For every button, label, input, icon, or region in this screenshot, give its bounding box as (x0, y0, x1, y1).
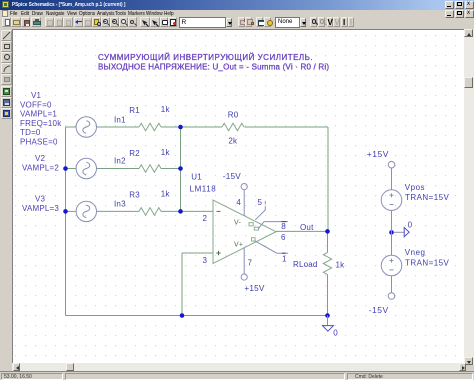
svg-text:ВЫХОДНОЕ НАПРЯЖЕНИЕ: U_Out = -: ВЫХОДНОЕ НАПРЯЖЕНИЕ: U_Out = - Summa (Vi… (98, 63, 329, 72)
V1 attribute labels (20, 91, 62, 146)
pin 1 stub and number (255, 241, 288, 264)
resistor R0 (222, 110, 244, 145)
voltage source V3 (76, 201, 96, 221)
svg-text:TRAN=15V: TRAN=15V (405, 259, 449, 268)
svg-text:R1: R1 (129, 106, 140, 115)
junction R3 output node (178, 209, 183, 214)
junction pin3 ground tap (180, 313, 185, 318)
wire left rail (65, 127, 67, 316)
voltage source V2 (76, 158, 96, 178)
pin 7 wire and number (244, 248, 252, 274)
svg-text:1k: 1k (336, 261, 346, 270)
voltage source V1 (76, 117, 96, 137)
pin 6 number (281, 233, 286, 242)
svg-text:2k: 2k (228, 137, 238, 146)
svg-text:1: 1 (282, 254, 287, 263)
op-amp U1 LM118 body (213, 200, 276, 264)
voltage source Vpos (381, 190, 402, 211)
svg-text:R2: R2 (129, 149, 140, 158)
svg-text:4: 4 (236, 198, 241, 207)
junction Out node (325, 229, 330, 234)
V3 attribute labels (22, 195, 59, 213)
junction V3 tap on left rail (63, 209, 68, 214)
junction Vpos-Vneg midpoint (389, 230, 394, 235)
wire bottom rail (66, 315, 328, 317)
Vpos labels (405, 183, 450, 202)
wire output (276, 230, 328, 232)
svg-text:+15V: +15V (244, 284, 264, 293)
svg-text:1k: 1k (161, 148, 171, 157)
header title text (98, 53, 329, 71)
svg-text:5: 5 (258, 198, 263, 207)
wire RLoad leads (327, 231, 329, 315)
resistor R2 (129, 148, 170, 172)
resistor R1 (129, 105, 170, 131)
ground 0 right column (394, 221, 413, 237)
pin 5 stub and number (255, 198, 265, 220)
power port +15V top right (367, 149, 395, 168)
net label In3 (114, 200, 126, 209)
power port +15V (op-amp V+) (241, 274, 265, 293)
svg-text:8: 8 (281, 222, 286, 231)
power port -15V (op-amp V-) (223, 172, 247, 190)
svg-text:R0: R0 (228, 110, 239, 119)
junction V2 tap on left rail (63, 166, 68, 171)
svg-text:V+: V+ (234, 241, 243, 248)
svg-text:In3: In3 (114, 200, 126, 209)
pin 4 wire and number (236, 190, 244, 216)
svg-text:0: 0 (333, 328, 338, 337)
svg-text:VAMPL=2: VAMPL=2 (22, 164, 59, 173)
svg-text:In1: In1 (114, 116, 126, 125)
svg-text:V-: V- (234, 219, 241, 226)
svg-text:Vpos: Vpos (405, 183, 425, 192)
wire V1 row (66, 126, 181, 128)
voltage source Vneg (381, 255, 402, 276)
svg-text:1k: 1k (161, 105, 171, 114)
svg-text:СУММИРУЮЩИЙ ИНВЕРТИРУЮЩИЙ УСИЛ: СУММИРУЮЩИЙ ИНВЕРТИРУЮЩИЙ УСИЛИТЕЛЬ. (98, 53, 313, 62)
wire +15V to Vpos (391, 168, 393, 190)
svg-text:6: 6 (281, 233, 286, 242)
pin 3 number (203, 256, 208, 265)
wire middle vertical bus (180, 127, 182, 211)
wire to op-amp pin2 (181, 210, 214, 212)
svg-text:Out: Out (300, 223, 314, 232)
wire Vpos to Vneg (391, 210, 393, 255)
svg-text:PHASE=0: PHASE=0 (20, 138, 58, 147)
svg-text:Vneg: Vneg (405, 248, 426, 257)
svg-text:-15V: -15V (223, 172, 241, 181)
wire to op-amp pin3 (182, 253, 213, 316)
svg-text:TRAN=15V: TRAN=15V (405, 193, 449, 202)
V2 attribute labels (22, 154, 59, 173)
power port -15V bottom right (369, 293, 395, 315)
net label Out (300, 223, 314, 232)
wire V3 row (66, 210, 181, 212)
svg-text:TD=0: TD=0 (20, 128, 41, 137)
wire Vneg to -15V (391, 276, 393, 293)
svg-text:+15V: +15V (367, 149, 389, 159)
svg-text:VAMPL=1: VAMPL=1 (20, 110, 57, 119)
pin 2 number (203, 214, 208, 223)
junction R1 output node (178, 125, 183, 130)
Vneg labels (405, 248, 450, 268)
svg-text:V2: V2 (35, 154, 46, 163)
svg-text:R3: R3 (129, 191, 140, 200)
svg-text:-15V: -15V (369, 305, 389, 315)
svg-text:V1: V1 (31, 91, 42, 100)
svg-text:In2: In2 (114, 157, 126, 166)
U1 reference labels (190, 172, 217, 193)
net label In2 (114, 157, 126, 166)
svg-text:2: 2 (203, 214, 208, 223)
svg-text:VAMPL=3: VAMPL=3 (22, 204, 59, 213)
pin 8 stub and number (259, 222, 289, 231)
junction R2 output node (178, 166, 183, 171)
svg-text:3: 3 (203, 256, 208, 265)
resistor RLoad (293, 253, 345, 275)
svg-text:0: 0 (408, 221, 413, 230)
wire V2 row (66, 168, 181, 170)
svg-text:7: 7 (248, 259, 253, 268)
resistor R3 (129, 190, 170, 216)
svg-text:LM118: LM118 (190, 185, 217, 194)
junction RLoad bottom node (325, 313, 330, 318)
svg-text:V3: V3 (35, 195, 46, 204)
svg-text:FREQ=10k: FREQ=10k (20, 119, 62, 128)
svg-text:RLoad: RLoad (293, 260, 318, 269)
wire feedback top (181, 127, 329, 231)
svg-text:U1: U1 (191, 172, 202, 181)
net label In1 (114, 116, 126, 125)
svg-text:VOFF=0: VOFF=0 (20, 101, 52, 110)
ground 0 at bottom rail (322, 316, 338, 338)
svg-text:1k: 1k (161, 190, 171, 199)
